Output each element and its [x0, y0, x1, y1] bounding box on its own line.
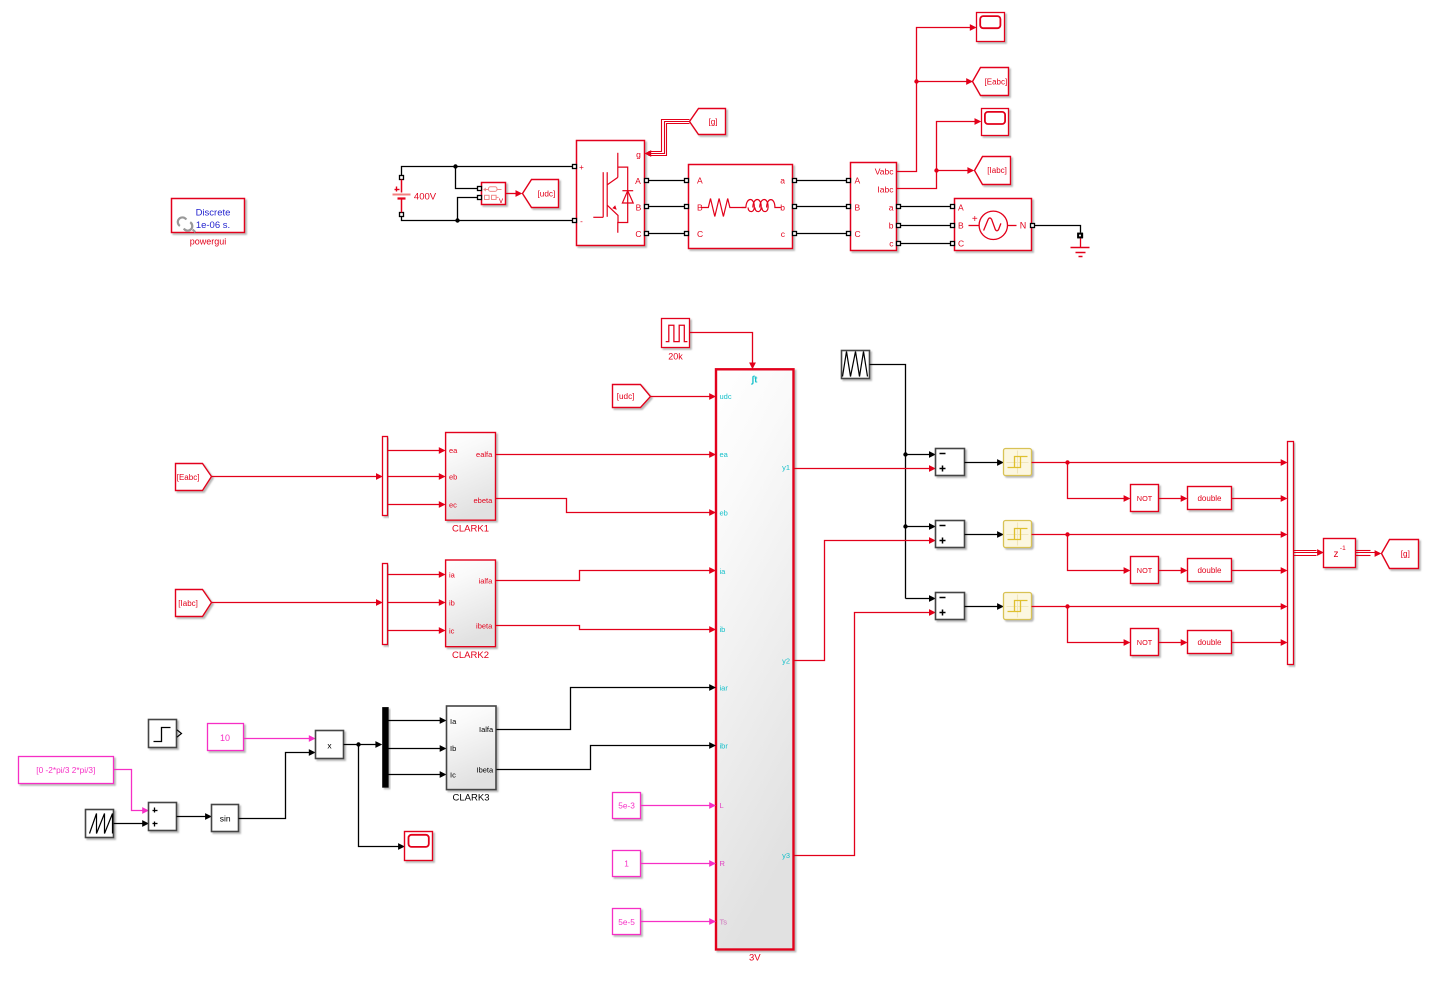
- wire DC+ rail: [402, 167, 574, 176]
- svg-text:ia: ia: [720, 567, 727, 576]
- voltage measurement block v: [482, 183, 506, 205]
- pulse generator 20k: [662, 319, 690, 348]
- wire sum1 to relay1: [965, 462, 999, 464]
- sum block 1: [936, 449, 965, 476]
- sum block 3: [936, 593, 965, 620]
- svg-text:3V: 3V: [749, 953, 761, 964]
- from tag [g] top: [690, 109, 726, 135]
- svg-text:[Eabc]: [Eabc]: [177, 473, 200, 482]
- filter port squares: [685, 179, 689, 183]
- svg-text:B: B: [697, 203, 703, 213]
- product block x: [316, 731, 344, 759]
- svg-text:[g]: [g]: [708, 117, 717, 126]
- wire y1 to sum1 plus: [794, 468, 931, 470]
- wire double2 to mux: [1232, 570, 1283, 572]
- svg-text:Ic: Ic: [450, 771, 456, 780]
- sum block 2: [936, 521, 965, 548]
- node Vabc junction: [914, 79, 918, 83]
- svg-text:y2: y2: [782, 657, 790, 666]
- svg-text:ib: ib: [449, 599, 455, 608]
- LC filter block: [689, 165, 793, 249]
- svg-text:[0 -2*pi/3 2*pi/3]: [0 -2*pi/3 2*pi/3]: [36, 765, 95, 775]
- wire branch to NOT3: [1068, 607, 1125, 643]
- triangle wave block: [842, 351, 870, 379]
- CLARK3 block: [447, 706, 497, 790]
- demux2: [383, 564, 388, 645]
- wire sum to sin: [177, 816, 207, 818]
- goto tag [udc]: [523, 180, 559, 208]
- svg-text:A: A: [855, 176, 861, 186]
- wire Vabc to scope1: [897, 28, 972, 172]
- svg-text:-: -: [580, 217, 583, 226]
- svg-text:CLARK1: CLARK1: [452, 524, 489, 535]
- demux3 (solid): [382, 707, 389, 788]
- svg-text:a: a: [889, 203, 894, 213]
- svg-text:Iabc: Iabc: [877, 184, 894, 194]
- svg-text:10: 10: [220, 733, 230, 743]
- svg-text:[Iabc]: [Iabc]: [987, 166, 1007, 175]
- unit delay block z-1: [1324, 539, 1356, 568]
- svg-text:g: g: [636, 149, 641, 159]
- node relay3 junction: [1065, 604, 1069, 608]
- node relay1 junction: [1065, 460, 1069, 464]
- wire branch to [Iabc] goto: [937, 170, 970, 172]
- svg-text:powergui: powergui: [190, 237, 227, 247]
- svg-text:Discrete: Discrete: [196, 208, 231, 219]
- relay block 3: [1004, 593, 1032, 620]
- wire relay2 to mux: [1032, 534, 1283, 536]
- svg-text:eb: eb: [720, 508, 728, 517]
- step unconnected output: [177, 730, 182, 737]
- wire meas a to source A: [901, 206, 951, 208]
- sum block: [149, 803, 177, 831]
- svg-text:1e-06 s.: 1e-06 s.: [196, 220, 230, 231]
- wire to voltmeter -: [458, 198, 480, 221]
- svg-text:20k: 20k: [668, 352, 683, 362]
- svg-text:ea: ea: [449, 446, 458, 455]
- svg-text:eb: eb: [449, 473, 457, 482]
- svg-text:R: R: [720, 859, 726, 868]
- wire sin to product: [239, 753, 311, 819]
- wire sum2 to relay2: [965, 534, 999, 536]
- inverter IGBT-diode icon: [593, 153, 633, 233]
- wire branch to scope3: [359, 745, 400, 847]
- svg-text:L: L: [720, 801, 724, 810]
- constant 5e-3: [613, 793, 641, 819]
- svg-text:NOT: NOT: [1137, 638, 1153, 647]
- wire filter c to meas C: [797, 233, 847, 235]
- wire filter b to meas B: [797, 206, 847, 208]
- wire inverter A to filter A: [649, 180, 686, 182]
- relay block 2: [1004, 521, 1032, 548]
- constant 5e-5: [613, 909, 641, 935]
- svg-text:Ts: Ts: [720, 918, 728, 927]
- wire product to demux3: [344, 744, 377, 746]
- wire inverter C to filter C: [649, 233, 686, 235]
- wire NOT2 to double2: [1159, 570, 1183, 572]
- goto tag [Iabc]: [975, 157, 1011, 185]
- constant 10: [208, 724, 244, 751]
- constant [0 -2*pi/3 2*pi/3]: [19, 757, 114, 784]
- wire sum3 to relay3: [965, 606, 999, 608]
- svg-text:400V: 400V: [414, 192, 437, 203]
- svg-text:+: +: [579, 163, 584, 172]
- wire 5e-5 to Ts: [641, 921, 711, 923]
- ground symbol: [1080, 239, 1082, 248]
- svg-text:udc: udc: [720, 392, 732, 401]
- svg-text:C: C: [855, 229, 861, 239]
- three-phase V-I measurement block: [851, 163, 897, 251]
- svg-text:∫t: ∫t: [751, 375, 759, 386]
- IGBT inverter block: [577, 141, 645, 246]
- wire y2 to sum2 plus: [794, 541, 931, 661]
- wire NOT1 to double1: [1159, 498, 1183, 500]
- wire branch to [Eabc] goto: [917, 81, 969, 83]
- svg-text:C: C: [958, 239, 964, 249]
- three-phase source block: [955, 199, 1032, 251]
- powergui block: [172, 199, 245, 233]
- node relay2 junction: [1065, 532, 1069, 536]
- source sine icon: [979, 211, 1007, 239]
- relay block 1: [1004, 449, 1032, 476]
- wire ialfa to 3V ia: [496, 571, 711, 581]
- node DC+ junction: [453, 164, 457, 168]
- node Iabc junction: [934, 168, 938, 172]
- svg-text:ic: ic: [449, 626, 455, 635]
- double block 3: [1188, 631, 1232, 654]
- NOT block 3: [1131, 629, 1159, 656]
- svg-text:double: double: [1197, 494, 1222, 503]
- DC source battery 400V: [400, 176, 404, 180]
- svg-text:ea: ea: [720, 450, 729, 459]
- svg-text:ialfa: ialfa: [479, 577, 494, 586]
- svg-text:5e-3: 5e-3: [618, 800, 635, 810]
- demux3 output wires: [389, 720, 441, 722]
- wire filter a to meas A: [797, 180, 847, 182]
- from tag [Iabc]: [176, 590, 212, 617]
- wire DC- rail: [402, 217, 574, 221]
- NOT block 2: [1131, 557, 1159, 584]
- svg-text:A: A: [697, 176, 703, 186]
- svg-text:Ibeta: Ibeta: [477, 766, 495, 775]
- sin block: [212, 805, 239, 832]
- svg-text:b: b: [889, 221, 894, 231]
- wire y3 to sum3 plus: [794, 613, 931, 856]
- svg-text:[udc]: [udc]: [538, 190, 556, 199]
- double block 1: [1188, 487, 1232, 510]
- wire 10 to product: [244, 738, 311, 740]
- wire relay1 to mux: [1032, 462, 1283, 464]
- svg-text:C: C: [635, 229, 641, 239]
- svg-text:1: 1: [624, 859, 629, 869]
- svg-text:ibr: ibr: [720, 742, 729, 751]
- goto tag [Eabc]: [973, 68, 1009, 96]
- svg-text:CLARK2: CLARK2: [452, 650, 489, 661]
- svg-text:B: B: [958, 221, 964, 231]
- wire NOT3 to double3: [1159, 642, 1183, 644]
- svg-text:B: B: [855, 203, 861, 213]
- svg-text:[Iabc]: [Iabc]: [178, 599, 198, 608]
- wire relay3 to mux: [1032, 606, 1283, 608]
- svg-text:A: A: [958, 203, 964, 213]
- goto tag [g] bottom: [1382, 540, 1419, 569]
- wire 1 to R: [641, 863, 711, 865]
- svg-text:double: double: [1197, 566, 1222, 575]
- wire [udc] to 3V: [651, 396, 711, 398]
- wire into sum3 minus: [906, 598, 931, 600]
- svg-text:[udc]: [udc]: [617, 392, 635, 401]
- CLARK2 block: [446, 560, 496, 647]
- node triangle junction 2: [903, 524, 907, 528]
- CLARK1 block: [446, 433, 496, 521]
- wire unit delay to [g] (3 lines): [1356, 550, 1371, 552]
- svg-text:ebeta: ebeta: [474, 496, 494, 505]
- wire Ibeta to 3V ibr: [497, 746, 711, 770]
- from tag [udc] lower: [613, 385, 651, 408]
- svg-text:ealfa: ealfa: [476, 450, 493, 459]
- wire to voltmeter +: [456, 167, 480, 189]
- wire double1 to mux: [1232, 498, 1283, 500]
- svg-text:5e-5: 5e-5: [618, 917, 635, 927]
- wire branch to NOT1: [1068, 463, 1125, 499]
- wire ebeta to 3V eb: [496, 499, 711, 513]
- demux1 output wires: [388, 450, 441, 452]
- svg-text:b: b: [780, 203, 785, 213]
- svg-text:Ialfa: Ialfa: [479, 725, 494, 734]
- svg-text:y3: y3: [782, 851, 790, 860]
- wire ealfa to 3V ea: [496, 454, 711, 456]
- NOT block 1: [1131, 485, 1159, 512]
- inverter output ports: [645, 179, 649, 183]
- wire const to sum: [114, 770, 144, 811]
- from tag [Eabc]: [176, 464, 212, 491]
- scope2: [982, 109, 1009, 136]
- demux1: [383, 437, 388, 516]
- wire meas b to source B: [901, 225, 951, 227]
- subsystem block 3V: [716, 369, 794, 949]
- svg-text:-1: -1: [1340, 545, 1346, 552]
- svg-text:sin: sin: [220, 814, 231, 824]
- wire into sum2 minus: [906, 526, 931, 528]
- wire [Eabc] to demux1: [212, 476, 378, 478]
- svg-text:v: v: [499, 196, 503, 205]
- wire ibeta to 3V ib: [496, 626, 711, 630]
- double block 2: [1188, 559, 1232, 582]
- wire mux to unit delay (3 lines): [1294, 550, 1317, 552]
- svg-text:double: double: [1197, 638, 1222, 647]
- wire [g] to inverter gate (3 lines): [649, 120, 690, 152]
- svg-text:iar: iar: [720, 683, 729, 692]
- node product junction: [356, 742, 360, 746]
- svg-text:ib: ib: [720, 625, 726, 634]
- svg-text:Ib: Ib: [450, 744, 456, 753]
- wire Iabc to scope2: [897, 122, 977, 189]
- wire branch to NOT2: [1068, 535, 1125, 571]
- wire [Iabc] to demux2: [212, 602, 378, 604]
- demux2 output wires: [388, 574, 441, 576]
- svg-text:a: a: [780, 176, 785, 186]
- svg-text:NOT: NOT: [1137, 494, 1153, 503]
- wire triangle to sums (vertical): [870, 365, 906, 599]
- svg-text:N: N: [1020, 221, 1027, 231]
- svg-text:NOT: NOT: [1137, 566, 1153, 575]
- svg-text:y1: y1: [782, 463, 790, 472]
- wire Ialfa to 3V iar: [497, 688, 711, 730]
- svg-text:+: +: [972, 214, 978, 225]
- svg-text:Vabc: Vabc: [875, 166, 894, 176]
- node DC- junction: [455, 218, 459, 222]
- wire double3 to mux: [1232, 642, 1283, 644]
- scope1: [977, 13, 1005, 42]
- wire meas c to source C: [901, 243, 951, 245]
- svg-text:[Eabc]: [Eabc]: [985, 77, 1008, 86]
- step block: [149, 720, 177, 748]
- constant 1: [613, 851, 641, 877]
- svg-text:ec: ec: [449, 500, 457, 509]
- svg-text:A: A: [635, 176, 641, 186]
- svg-text:C: C: [697, 229, 703, 239]
- wire v to [udc]: [506, 193, 516, 195]
- filter resistor-inductor icon: [701, 199, 746, 217]
- wire into sum1 minus: [906, 454, 931, 456]
- svg-text:[g]: [g]: [1401, 550, 1410, 559]
- wire N to ground: [1035, 226, 1081, 233]
- inverter input ports: [573, 165, 577, 169]
- wire pulse to 3V trigger: [690, 333, 753, 364]
- scope3: [405, 832, 433, 861]
- svg-text:z: z: [1334, 549, 1339, 560]
- wire 5e-3 to L: [641, 805, 711, 807]
- svg-text:CLARK3: CLARK3: [453, 793, 490, 804]
- node triangle junction 1: [903, 452, 907, 456]
- svg-text:ia: ia: [449, 571, 456, 580]
- svg-text:B: B: [636, 203, 642, 213]
- wire inverter B to filter B: [649, 206, 686, 208]
- wire sawtooth to sum: [114, 823, 144, 825]
- svg-text:ibeta: ibeta: [476, 622, 493, 631]
- mux block: [1288, 442, 1294, 665]
- svg-text:Ia: Ia: [450, 717, 457, 726]
- sawtooth source block: [86, 810, 114, 838]
